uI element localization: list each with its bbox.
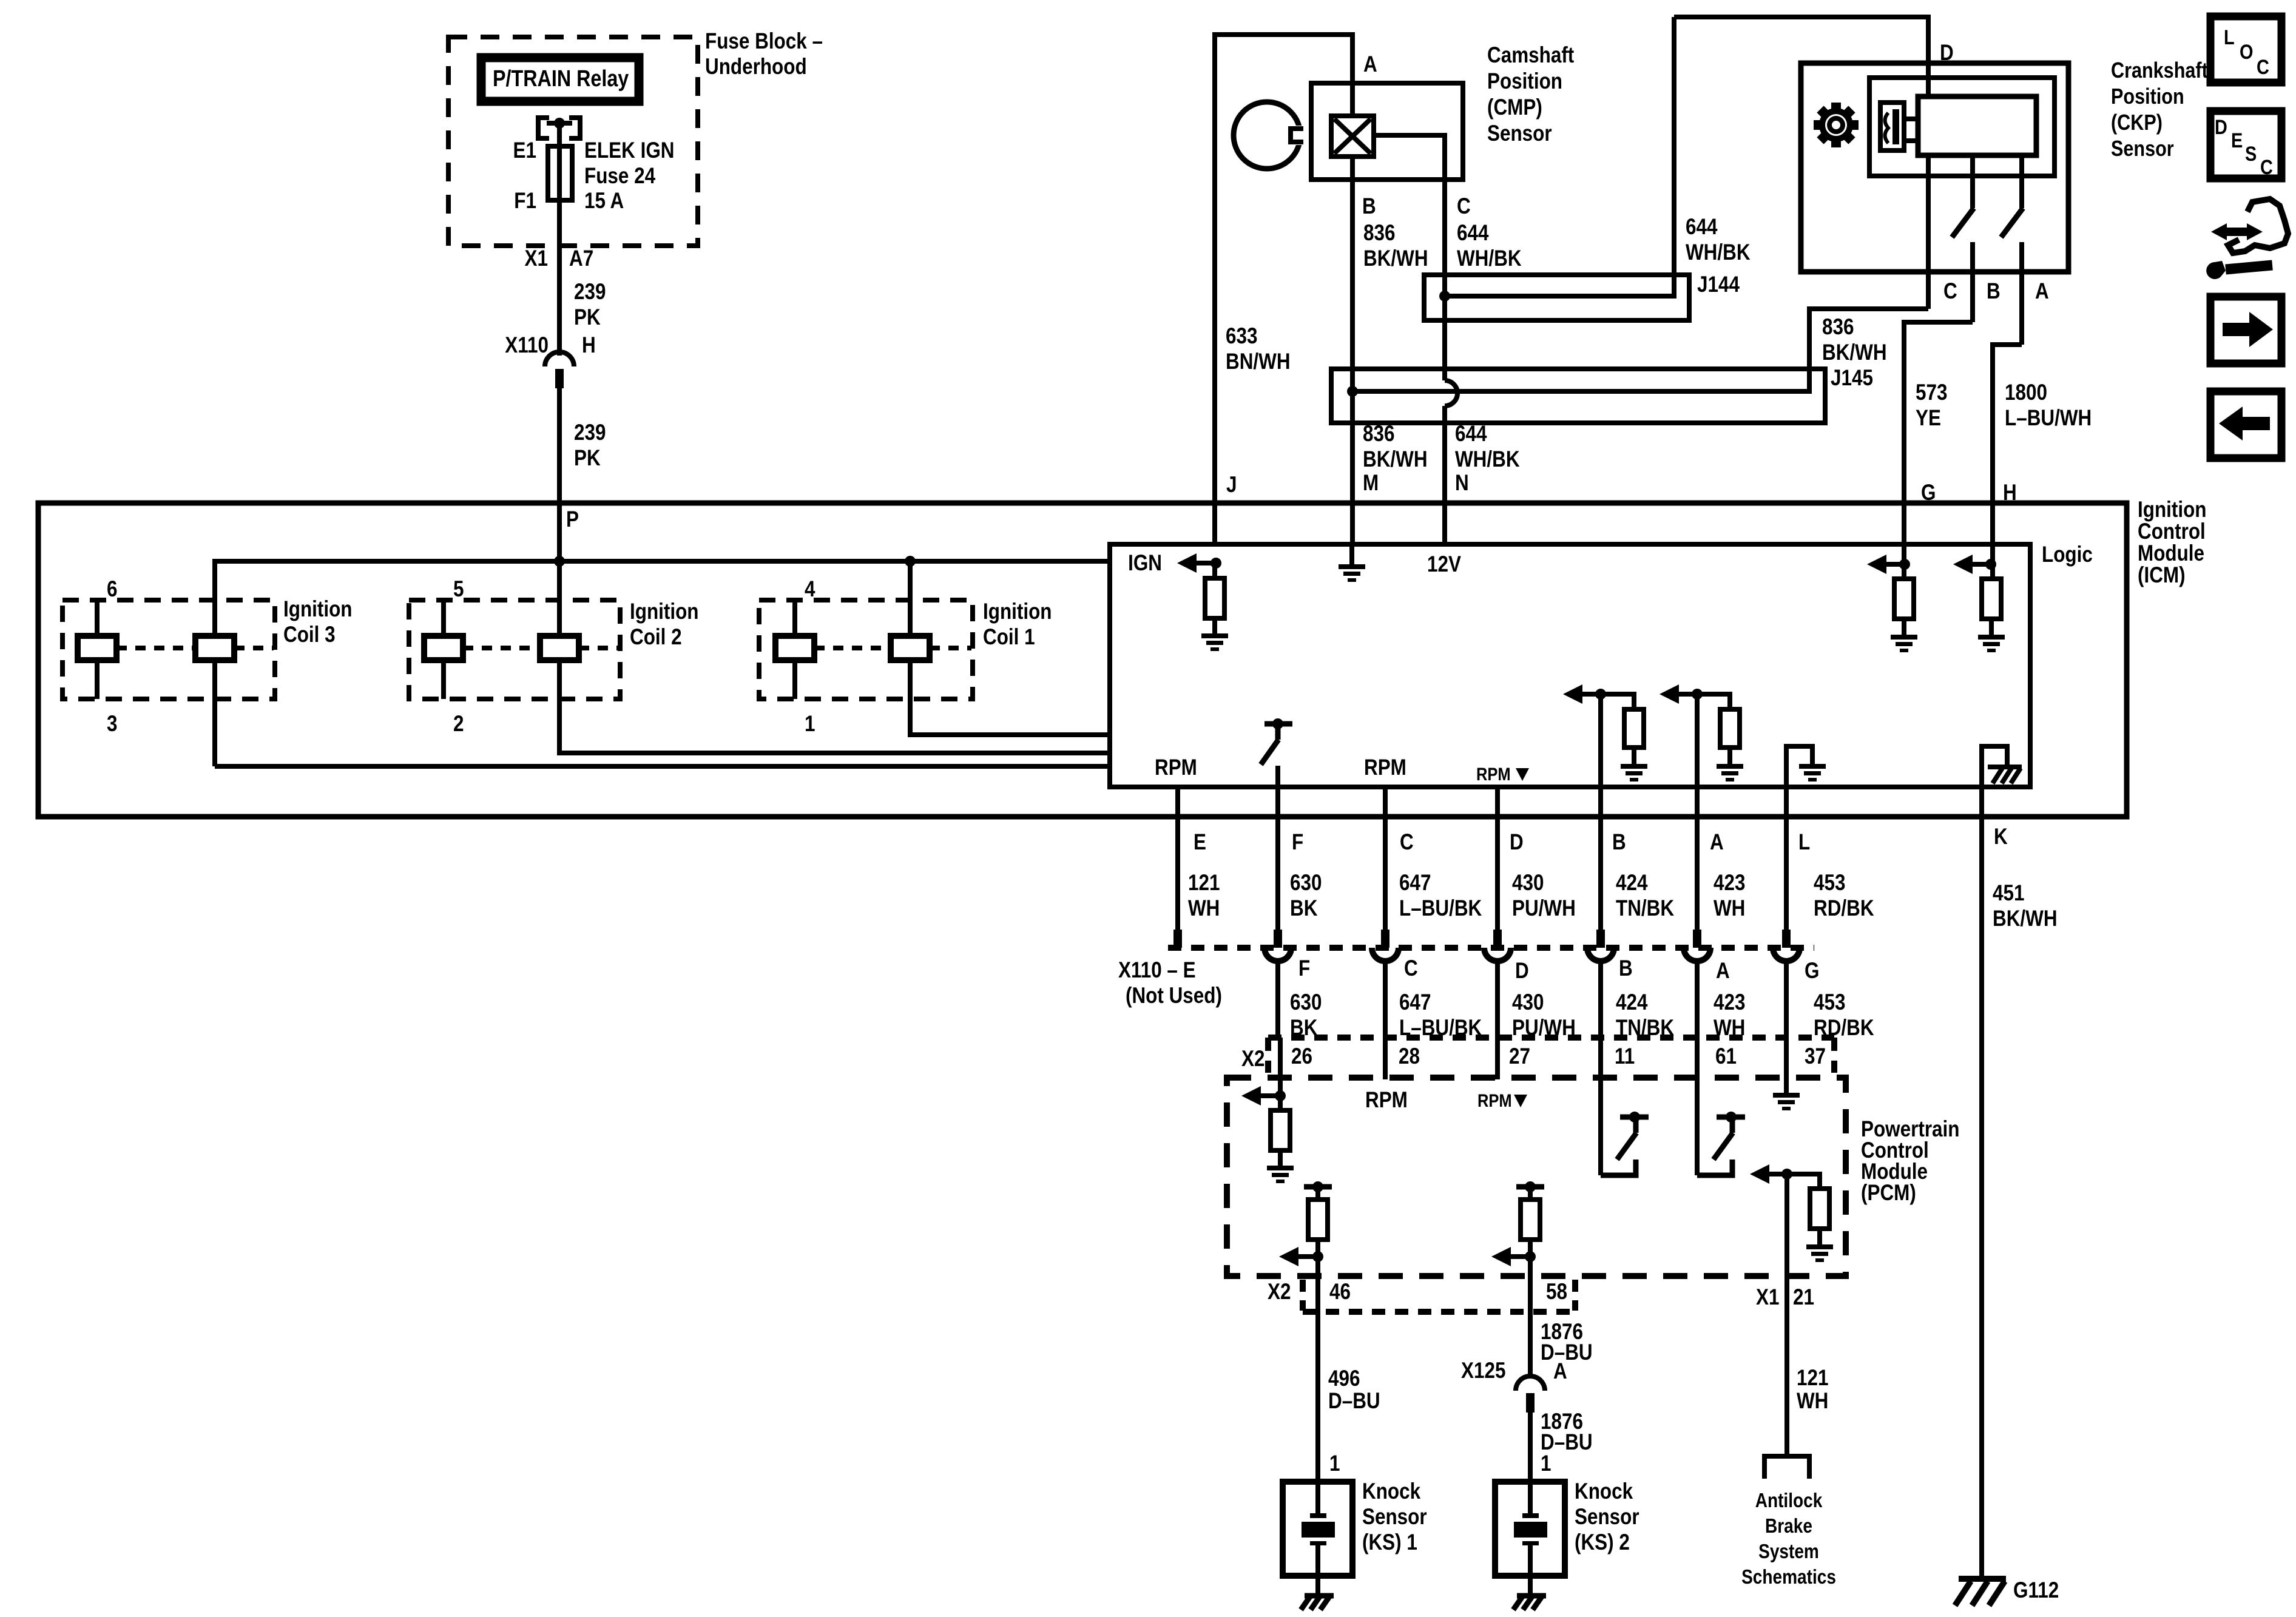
PCM dashed module box — [1227, 1078, 1846, 1276]
svg-text:D: D — [1515, 959, 1529, 984]
svg-text:L: L — [1798, 830, 1810, 855]
svg-text:1: 1 — [1329, 1451, 1340, 1476]
svg-text:Ignition: Ignition — [983, 599, 1052, 624]
svg-text:Ignition: Ignition — [2138, 498, 2207, 522]
resistor ICM R5 branch pin A — [1697, 694, 1730, 709]
svg-text:(PCM): (PCM) — [1861, 1181, 1916, 1206]
ground PCM pin 37 — [1773, 1093, 1800, 1110]
wire X110 to ICM pin P — [557, 388, 562, 561]
wire J144 splice to CKP D — [1445, 17, 1674, 296]
wire ABS drop — [1784, 1370, 1789, 1456]
arrow knock1 input — [1279, 1247, 1298, 1266]
svg-text:WH/BK: WH/BK — [1686, 240, 1751, 265]
coil3 left winding pin 6 lead — [95, 600, 100, 636]
wire CKP pin C from element — [1926, 155, 1931, 309]
wire ignition feed bus — [215, 561, 1110, 766]
connector X110 pin G — [1782, 930, 1791, 948]
wire A below X110 — [1695, 960, 1700, 1038]
coil3 left winding — [78, 636, 116, 660]
ignition coil 2 dashed box — [409, 600, 620, 699]
wire pin B riser — [1598, 694, 1603, 787]
svg-text:B: B — [1362, 194, 1376, 219]
svg-text:D–BU: D–BU — [1328, 1389, 1380, 1414]
wire pin L 453 RD/BK — [1784, 787, 1789, 930]
svg-text:H: H — [582, 333, 596, 358]
svg-text:L–BU/WH: L–BU/WH — [2005, 406, 2092, 431]
node pin B junction — [1595, 689, 1606, 700]
svg-text:A: A — [1553, 1359, 1567, 1384]
wire knock2 to X125 — [1528, 1257, 1533, 1377]
switch ICM output driver pin F — [1264, 721, 1292, 727]
svg-text:BK: BK — [1290, 896, 1318, 921]
wire KS2 to chassis ground — [1528, 1576, 1533, 1596]
svg-text:Sensor: Sensor — [2111, 137, 2174, 161]
CKP inner box — [1869, 78, 2055, 176]
svg-text:WH: WH — [1188, 896, 1220, 921]
svg-text:Logic: Logic — [2042, 542, 2093, 567]
node ABS junction — [1781, 1169, 1792, 1180]
ABS feed internal: arrow and node — [1750, 1164, 1769, 1184]
svg-text:RPM: RPM — [1155, 755, 1197, 780]
svg-text:Position: Position — [1487, 69, 1562, 94]
wire R3 to ground — [1989, 619, 1994, 635]
ground PCM R7 — [1806, 1244, 1833, 1262]
node bus coil1 junction — [905, 556, 916, 567]
svg-text:WH/BK: WH/BK — [1457, 246, 1522, 271]
svg-text:G: G — [1805, 959, 1819, 984]
wire F below X110 — [1275, 960, 1280, 1038]
svg-text:O: O — [2240, 40, 2253, 64]
wire G below X110 — [1784, 960, 1789, 1038]
svg-text:RD/BK: RD/BK — [1814, 896, 1874, 921]
node bus coil2 junction — [554, 556, 565, 567]
chassis ground ICM pin K — [1988, 767, 2022, 783]
svg-text:(KS) 2: (KS) 2 — [1575, 1530, 1630, 1555]
svg-text:Control: Control — [2138, 519, 2206, 544]
icon box arrow left — [2210, 391, 2281, 458]
svg-text:System: System — [1758, 1541, 1819, 1563]
resistor ICM R4 branch pin B — [1601, 694, 1634, 709]
svg-text:WH/BK: WH/BK — [1455, 447, 1520, 472]
resistor ICM R3 on pin H — [1990, 544, 1995, 579]
svg-text:Sensor: Sensor — [1487, 121, 1552, 146]
svg-text:451: 451 — [1993, 881, 2024, 906]
svg-text:Ignition: Ignition — [283, 597, 353, 622]
node pin 26 junction — [1275, 1090, 1286, 1101]
gear icon crankshaft reluctor — [1814, 103, 1859, 147]
svg-text:630: 630 — [1290, 990, 1322, 1015]
wire CKP pin B upper with switch — [1970, 155, 1975, 208]
svg-text:Antilock: Antilock — [1755, 1490, 1823, 1512]
knock sensor KS2 box — [1495, 1482, 1565, 1576]
ground ICM R2 — [1891, 635, 1917, 652]
ground ICM R5 — [1717, 764, 1743, 781]
svg-text:M: M — [1363, 471, 1379, 496]
arrow IGN output — [1177, 553, 1197, 573]
svg-text:E: E — [1194, 830, 1206, 855]
KS1 element — [1315, 1482, 1320, 1514]
svg-text:Brake: Brake — [1765, 1515, 1812, 1538]
svg-text:28: 28 — [1399, 1044, 1420, 1069]
ignition coil 1 dashed box — [759, 600, 973, 699]
svg-text:11: 11 — [1615, 1044, 1635, 1069]
svg-text:424: 424 — [1616, 990, 1647, 1015]
node J144 splice — [1439, 291, 1450, 302]
svg-text:644: 644 — [1686, 215, 1717, 240]
svg-text:58: 58 — [1546, 1280, 1567, 1305]
svg-text:RPM: RPM — [1476, 764, 1511, 784]
svg-text:423: 423 — [1714, 990, 1745, 1015]
wire CKP pin A lower — [2019, 242, 2024, 345]
svg-text:P/TRAIN Relay: P/TRAIN Relay — [493, 66, 629, 92]
svg-text:IGN: IGN — [1128, 551, 1162, 576]
icon hand with double arrow and wrench — [2206, 199, 2288, 279]
resistor PCM R7 branch — [1787, 1174, 1820, 1189]
svg-text:Crankshaft: Crankshaft — [2111, 59, 2208, 83]
svg-text:630: 630 — [1290, 871, 1322, 896]
chassis ground G112 — [1955, 1579, 2006, 1605]
fuse F1 ELEK IGN Fuse 24 15A — [548, 146, 572, 200]
svg-text:644: 644 — [1455, 422, 1487, 447]
svg-text:Position: Position — [2111, 85, 2184, 109]
svg-text:WH: WH — [1714, 896, 1745, 921]
connector X110 row dashed line — [1168, 945, 1814, 951]
svg-text:J145: J145 — [1831, 366, 1873, 391]
svg-text:573: 573 — [1916, 380, 1947, 405]
wire pin K 451 BK/WH to G112 — [1979, 787, 1984, 1576]
connector X110 pin D — [1493, 930, 1502, 948]
svg-text:C: C — [1404, 956, 1418, 981]
svg-text:X2: X2 — [1241, 1047, 1264, 1072]
wire R1 to ground — [1212, 618, 1217, 633]
ground ICM R1 — [1201, 633, 1228, 651]
svg-text:644: 644 — [1457, 221, 1488, 246]
CMP sensing element X box — [1331, 116, 1374, 157]
svg-text:A: A — [1363, 52, 1377, 77]
wire fuse to connector X110 — [557, 200, 562, 356]
svg-text:L: L — [2224, 25, 2235, 49]
wire CKP B to ICM pin G (573 YE) — [1904, 322, 1973, 544]
svg-text:424: 424 — [1616, 871, 1647, 896]
svg-text:K: K — [1994, 825, 2008, 849]
svg-text:PU/WH: PU/WH — [1512, 1016, 1576, 1041]
svg-text:X1: X1 — [1756, 1285, 1779, 1310]
svg-text:C: C — [2260, 155, 2273, 179]
wire pin K hook to chassis ground — [1982, 746, 2007, 787]
wire pin 28 stub — [1383, 1038, 1388, 1079]
svg-text:Knock: Knock — [1362, 1479, 1421, 1504]
svg-text:3: 3 — [107, 712, 117, 737]
connector X110 pin H inline — [545, 352, 574, 366]
ground ICM R4 — [1621, 764, 1647, 781]
wire X125 to KS2 — [1528, 1413, 1533, 1482]
svg-text:S: S — [2245, 142, 2257, 166]
svg-text:C: C — [1943, 279, 1957, 304]
wire pin 26 into PCM — [1278, 1038, 1283, 1096]
svg-text:L–BU/BK: L–BU/BK — [1399, 896, 1482, 921]
svg-text:WH: WH — [1797, 1389, 1828, 1414]
node knock2 junction — [1525, 1251, 1536, 1262]
svg-text:1: 1 — [1541, 1451, 1551, 1476]
node pin G junction — [1899, 559, 1910, 570]
svg-text:D: D — [2215, 115, 2227, 139]
connector X110 pin F — [1274, 930, 1282, 948]
coil1 left winding pin 4 lead — [792, 600, 797, 636]
coil2 left winding pin 2 lead — [441, 660, 446, 699]
svg-text:Sensor: Sensor — [1575, 1505, 1639, 1530]
connector X2 row line — [1268, 1035, 1834, 1041]
svg-text:21: 21 — [1793, 1285, 1814, 1310]
svg-text:12V: 12V — [1427, 552, 1461, 577]
switch blade CKP A — [2001, 208, 2023, 237]
coil2 left winding — [424, 636, 463, 660]
wire coil2 right pin and return rail — [559, 561, 1110, 753]
svg-text:836: 836 — [1822, 315, 1854, 340]
svg-text:(CKP): (CKP) — [2111, 111, 2163, 135]
svg-text:BK/WH: BK/WH — [1993, 906, 2058, 931]
svg-text:239: 239 — [574, 420, 606, 445]
knock sensor KS1 box — [1283, 1482, 1352, 1576]
ICM logic box — [1110, 544, 2030, 787]
coil1 right winding — [891, 636, 930, 660]
wire CMP pin A feed top run — [1215, 35, 1352, 83]
svg-text:37: 37 — [1805, 1044, 1826, 1069]
splice block J145 — [1331, 369, 1825, 423]
resistor ICM R2 on pin G — [1902, 544, 1906, 579]
wire C below X110 — [1383, 960, 1388, 1038]
coil2 left winding pin 5 lead — [441, 600, 446, 636]
ICM outer module box — [38, 503, 2127, 817]
wires element stubs — [1904, 116, 1918, 121]
svg-text:(KS) 1: (KS) 1 — [1362, 1530, 1417, 1555]
svg-text:C: C — [2257, 55, 2269, 79]
svg-text:BN/WH: BN/WH — [1226, 349, 1291, 374]
icon box LOC — [2210, 16, 2281, 83]
connector X2 left stub — [1265, 1038, 1271, 1073]
connector X110 pin B — [1596, 930, 1605, 948]
svg-text:X110: X110 — [505, 333, 549, 358]
coil1 core dashes — [814, 646, 891, 650]
wire pin E 121 WH — [1175, 787, 1180, 930]
wire 633 BN/WH to ICM pin J — [1212, 32, 1217, 544]
off-page connector ABS — [1764, 1456, 1809, 1479]
svg-text:239: 239 — [574, 280, 606, 305]
wire pin D 430 PU/WH — [1495, 787, 1500, 930]
svg-text:D: D — [1510, 830, 1524, 855]
node pin A junction — [1692, 689, 1703, 700]
svg-text:X110 – E: X110 – E — [1118, 958, 1196, 983]
camshaft cam icon circle with notch — [1234, 102, 1300, 169]
svg-text:TN/BK: TN/BK — [1616, 896, 1674, 921]
svg-text:Ignition: Ignition — [630, 599, 699, 624]
arrow pin H input — [1953, 555, 1973, 574]
switch PCM input pin 11 — [1598, 1038, 1603, 1175]
svg-text:J: J — [1226, 473, 1237, 498]
relay K1 P/TRAIN Relay box — [481, 58, 639, 101]
svg-text:YE: YE — [1916, 406, 1941, 431]
coil2 right winding — [540, 636, 579, 660]
node pin H junction — [1985, 559, 1996, 570]
wire CMP pin B down (836 BK/WH) to ICM pin M — [1350, 157, 1355, 544]
ground ICM pin M — [1339, 564, 1365, 582]
svg-text:Fuse 24: Fuse 24 — [584, 164, 655, 189]
svg-text:E1: E1 — [513, 138, 536, 163]
coil1 left winding pin 1 lead — [792, 660, 797, 699]
svg-text:E: E — [2231, 129, 2243, 152]
svg-text:836: 836 — [1363, 221, 1395, 246]
wire J145 splice line to CKP C — [1352, 369, 1809, 391]
wire knock1 to pin 46 — [1315, 1257, 1320, 1482]
svg-text:J144: J144 — [1697, 272, 1740, 297]
relay terminal bracket right — [569, 118, 580, 138]
connector X2 row 2 dashes — [1300, 1280, 1306, 1311]
svg-text:B: B — [1612, 830, 1626, 855]
connector X110 pin E stub not used — [1173, 930, 1182, 948]
CKP sensor outer box — [1801, 63, 2068, 272]
wire KS1 to chassis ground — [1315, 1576, 1320, 1596]
svg-text:G112: G112 — [2013, 1578, 2059, 1603]
svg-text:PK: PK — [574, 446, 601, 471]
svg-text:BK/WH: BK/WH — [1822, 340, 1887, 365]
coil3 right winding — [195, 636, 234, 660]
svg-text:Underhood: Underhood — [705, 55, 807, 79]
svg-text:423: 423 — [1714, 871, 1745, 896]
wire pin A 423 WH — [1695, 787, 1700, 930]
wire pin F 630 BK — [1275, 787, 1280, 930]
node IGN junction — [1210, 558, 1221, 569]
svg-text:26: 26 — [1291, 1044, 1312, 1069]
svg-text:B: B — [1619, 956, 1633, 981]
connector X125 pin A inline — [1516, 1376, 1545, 1391]
svg-text:453: 453 — [1814, 990, 1845, 1015]
coil1 left winding — [775, 636, 814, 660]
KS2 element — [1528, 1482, 1533, 1514]
svg-text:46: 46 — [1329, 1280, 1351, 1305]
svg-text:A: A — [1710, 830, 1724, 855]
wire R2 to ground — [1902, 619, 1906, 635]
wire pin L hook to ground — [1786, 746, 1812, 787]
svg-text:A7: A7 — [569, 246, 593, 271]
svg-text:(CMP): (CMP) — [1487, 95, 1542, 120]
arrow knock2 input — [1491, 1247, 1511, 1266]
svg-text:121: 121 — [1188, 871, 1220, 896]
svg-text:Knock: Knock — [1575, 1479, 1633, 1504]
wire coil1 right pin and return rail — [910, 561, 1110, 735]
svg-text:F1: F1 — [514, 189, 536, 214]
svg-text:633: 633 — [1226, 324, 1257, 349]
svg-text:15 A: 15 A — [584, 189, 624, 214]
svg-text:430: 430 — [1512, 871, 1544, 896]
relay terminal bracket left — [538, 118, 549, 138]
wire coil3 return rail — [215, 764, 1110, 769]
svg-text:496: 496 — [1328, 1366, 1360, 1391]
svg-text:647: 647 — [1399, 871, 1431, 896]
connector X110 pin A — [1693, 930, 1701, 948]
svg-text:61: 61 — [1715, 1044, 1737, 1069]
switch PCM input pin 61 — [1695, 1038, 1700, 1175]
wire pin A riser — [1695, 694, 1700, 787]
svg-text:Coil 1: Coil 1 — [983, 625, 1035, 650]
switch blade CKP B — [1952, 208, 1974, 237]
wire pin 27 stub — [1495, 1038, 1500, 1079]
wire CMP pin C down 644 WH/BK with hop over J145 splice to ICM pin N — [1442, 180, 1447, 380]
wire ABS output to X1 pin 21 — [1784, 1174, 1789, 1370]
wire A inside CMP — [1350, 83, 1355, 116]
arrow pin A input — [1660, 684, 1679, 704]
wire relay to fuse — [557, 123, 562, 200]
wire pin B 424 TN/BK — [1598, 787, 1603, 930]
svg-text:647: 647 — [1399, 990, 1431, 1015]
icon box arrow right — [2210, 297, 2281, 363]
svg-text:X125: X125 — [1461, 1359, 1505, 1383]
svg-text:Schematics: Schematics — [1741, 1566, 1836, 1588]
node relay terminal junction — [554, 118, 565, 129]
wire CKP pin D feed top run from J144 — [1674, 17, 1928, 96]
svg-text:PK: PK — [574, 305, 601, 330]
svg-text:F: F — [1292, 830, 1303, 855]
knock input 2 internal: bar resistor arrow — [1516, 1184, 1544, 1190]
chassis ground KS2 — [1513, 1596, 1546, 1610]
CMP sensor box — [1311, 83, 1463, 180]
arrow pin B input — [1563, 684, 1582, 704]
ground ICM pin L — [1799, 764, 1826, 781]
svg-text:P: P — [566, 507, 579, 532]
svg-text:PU/WH: PU/WH — [1512, 896, 1576, 921]
resistor PCM R6 — [1278, 1096, 1283, 1110]
wire CKP pin B lower — [1970, 242, 1975, 322]
svg-text:BK/WH: BK/WH — [1363, 447, 1428, 472]
svg-text:RPM: RPM — [1477, 1090, 1512, 1110]
wire CKP C to J145 (836 BK/WH) — [1809, 309, 1928, 391]
svg-text:4: 4 — [805, 577, 815, 602]
svg-text:Module: Module — [2138, 541, 2204, 566]
node J145 splice — [1347, 386, 1358, 397]
svg-text:6: 6 — [107, 577, 117, 602]
wire CMP element to pin C — [1374, 135, 1445, 180]
CKP pickup element box — [1880, 103, 1904, 150]
arrow pin G input — [1867, 555, 1886, 574]
node knock1 junction — [1312, 1251, 1323, 1262]
svg-text:1: 1 — [805, 712, 815, 737]
svg-text:27: 27 — [1509, 1044, 1530, 1069]
wire pin 37 to ground — [1784, 1038, 1789, 1093]
svg-text:Camshaft: Camshaft — [1487, 43, 1575, 68]
svg-text:X2: X2 — [1268, 1280, 1291, 1305]
svg-text:F: F — [1298, 956, 1310, 981]
svg-text:C: C — [1400, 830, 1414, 855]
svg-text:Coil 3: Coil 3 — [283, 623, 336, 647]
resistor ICM R1 — [1212, 563, 1217, 578]
fuse block underhood dashed box — [448, 37, 698, 246]
wire CKP pin A upper with switch — [2019, 155, 2024, 208]
splice block J144 — [1424, 275, 1689, 320]
svg-text:ELEK IGN: ELEK IGN — [584, 138, 674, 163]
ground PCM R6 — [1267, 1166, 1294, 1183]
wire switch to pin F — [1275, 766, 1280, 787]
wire relay terminal bar — [547, 121, 572, 126]
svg-text:Fuse Block –: Fuse Block – — [705, 29, 823, 54]
wire B below X110 — [1598, 960, 1603, 1038]
wire D below X110 — [1495, 960, 1500, 1038]
svg-text:(Not Used): (Not Used) — [1126, 984, 1222, 1008]
connector X2 right stub — [1831, 1038, 1837, 1073]
svg-text:(ICM): (ICM) — [2138, 563, 2186, 588]
svg-text:5: 5 — [453, 577, 464, 602]
svg-text:453: 453 — [1814, 871, 1845, 896]
coil3 left winding pin 3 lead — [95, 660, 100, 699]
ground ICM R3 — [1978, 635, 2005, 652]
CKP main element rect — [1918, 96, 2036, 155]
